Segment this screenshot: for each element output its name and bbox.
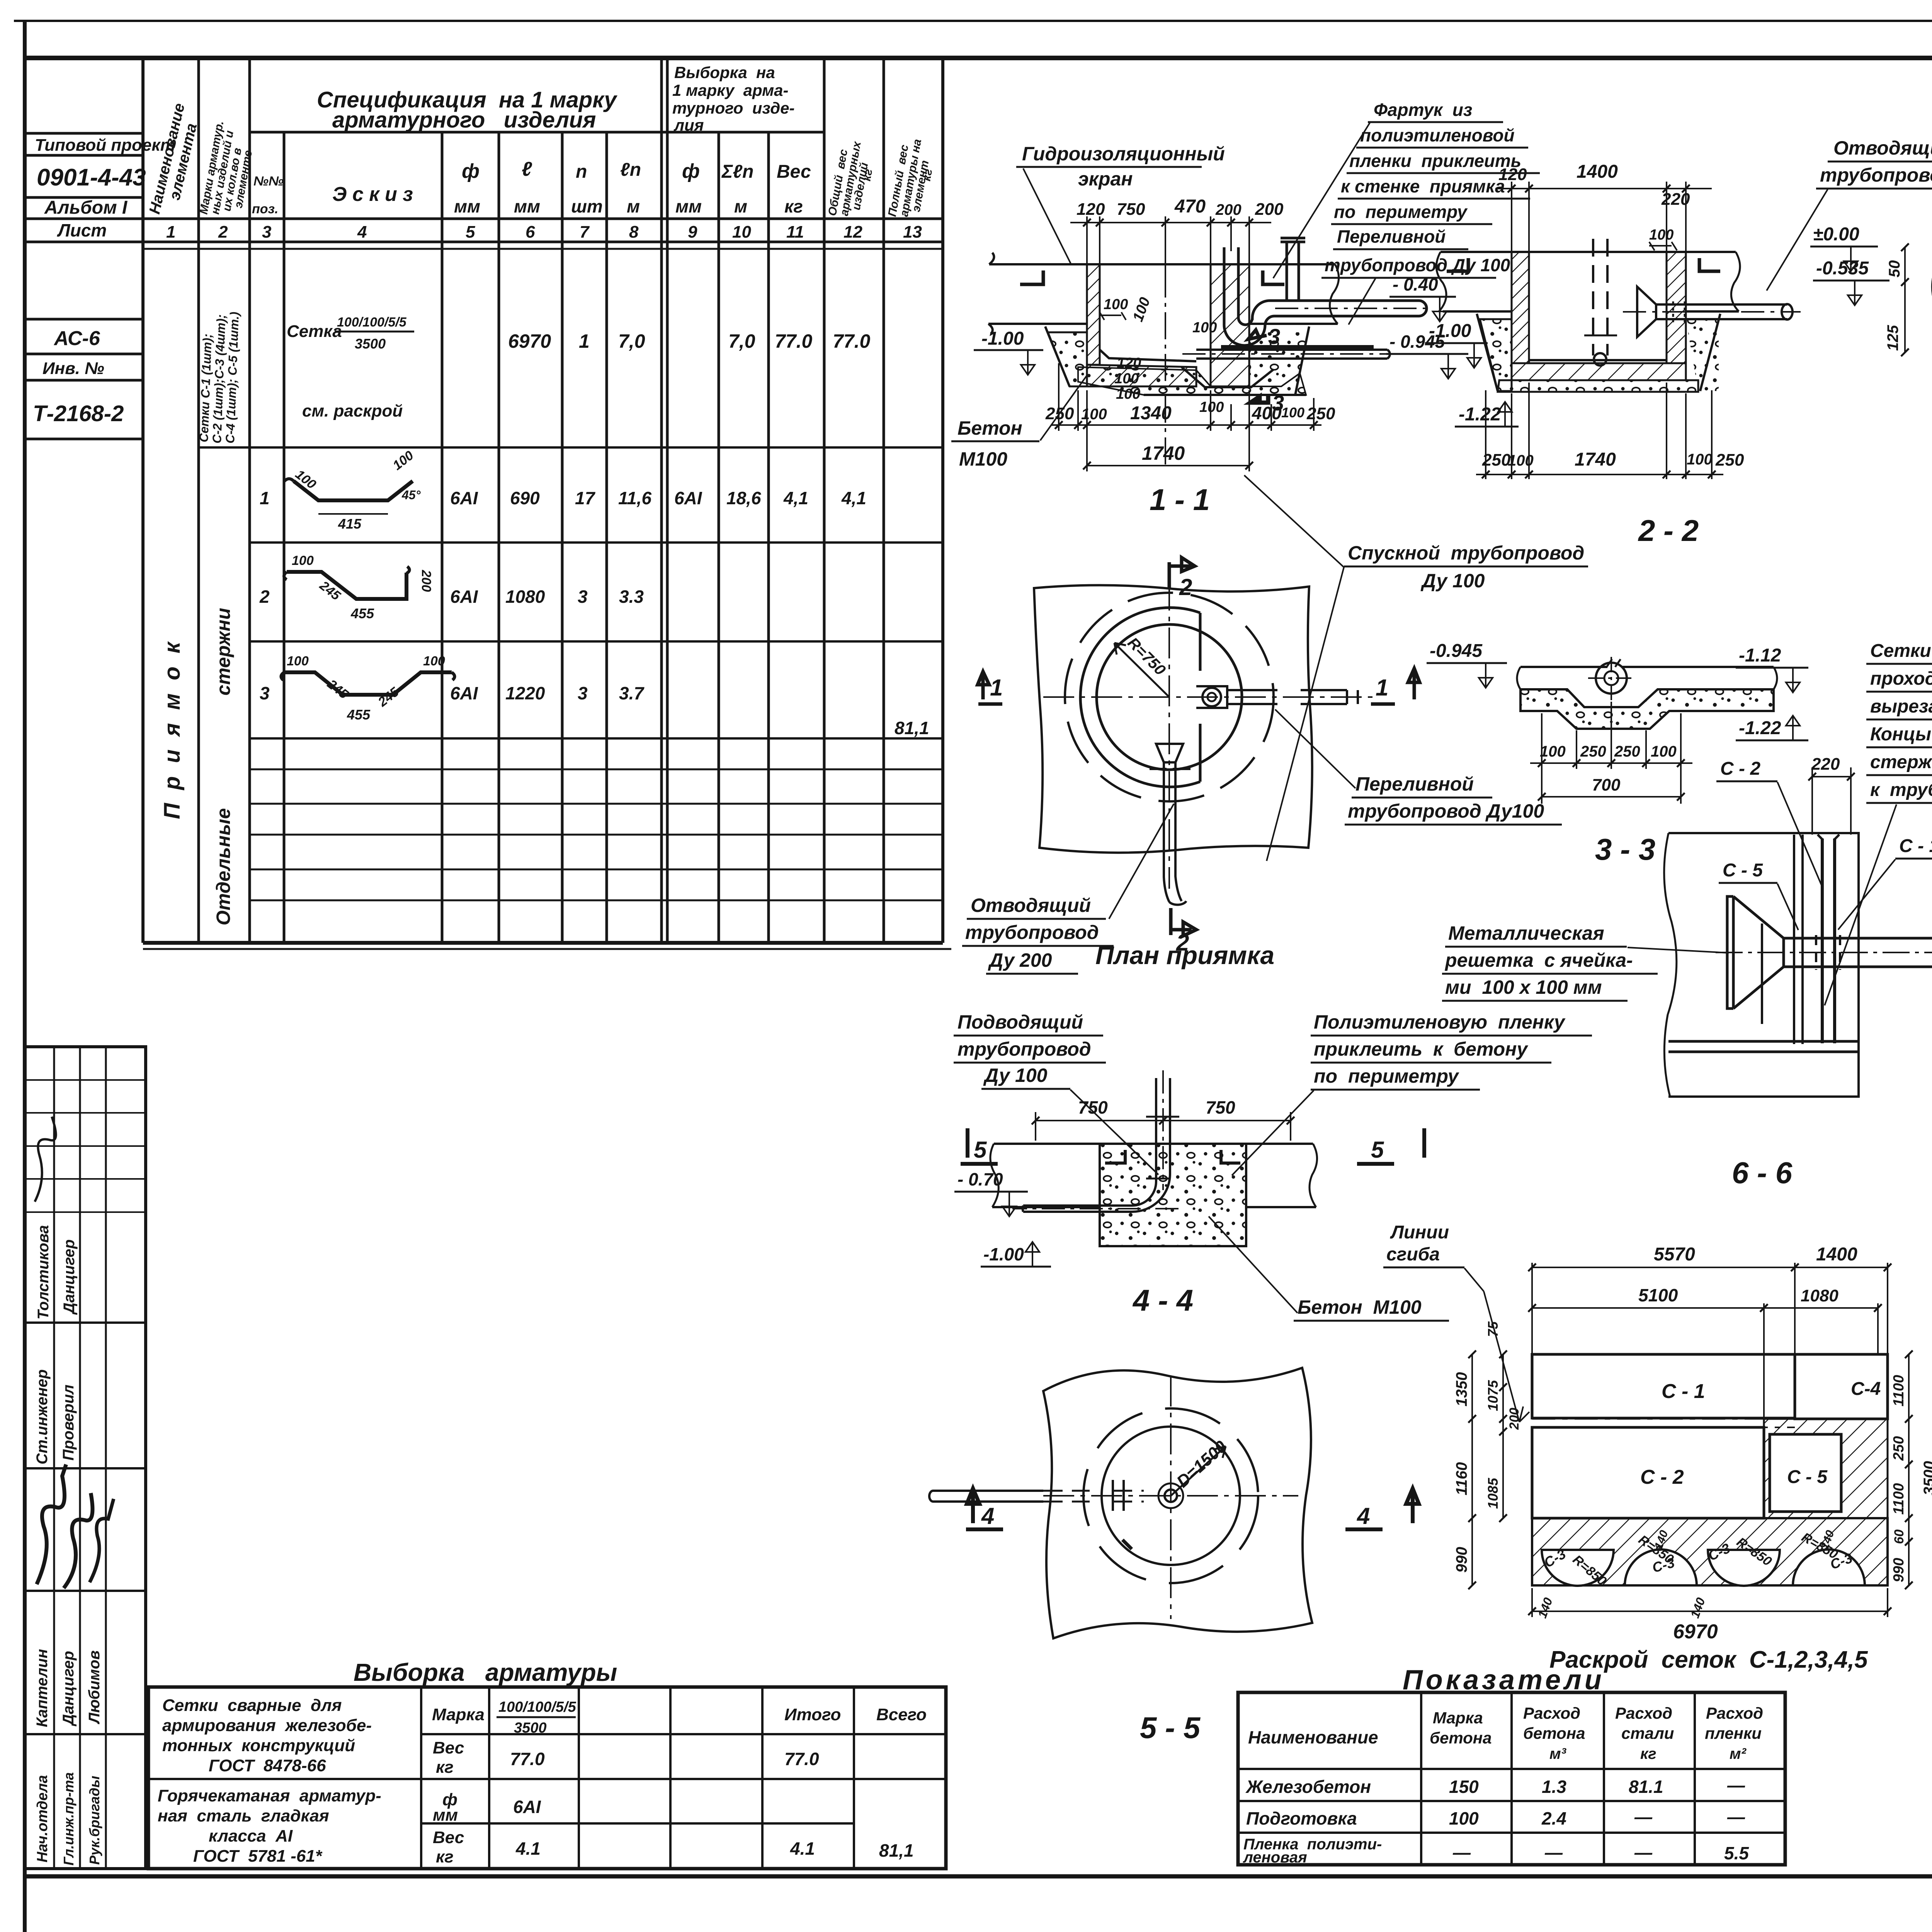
svg-text:С - 2: С - 2 <box>1720 759 1760 779</box>
standpipe tick <box>1584 335 1617 337</box>
svg-text:-1.22: -1.22 <box>1739 718 1781 738</box>
svg-text:4: 4 <box>1357 1503 1370 1529</box>
svg-text:ная сталь гладкая: ная сталь гладкая <box>158 1806 329 1825</box>
svg-text:трубопровод: трубопровод <box>965 922 1099 943</box>
svg-text:250: 250 <box>1580 743 1606 760</box>
svg-text:Типовой проект: Типовой проект <box>35 136 175 155</box>
svg-text:4.1: 4.1 <box>515 1838 541 1859</box>
box outline <box>1668 833 1859 1097</box>
pipe from left <box>929 1491 1043 1502</box>
svg-text:6970: 6970 <box>508 330 551 352</box>
dim 6970 bottom <box>1532 1611 1888 1612</box>
svg-text:трубопровод: трубопровод <box>1820 164 1932 186</box>
svg-text:пленки приклеить: пленки приклеить <box>1349 151 1521 171</box>
svg-text:1 марку арма-: 1 марку арма- <box>672 81 788 99</box>
row lines <box>421 1733 946 1735</box>
svg-text:Расход: Расход <box>1615 1704 1672 1722</box>
svg-text:1: 1 <box>166 223 175 241</box>
svg-text:100: 100 <box>1114 371 1139 387</box>
svg-text:2.4: 2.4 <box>1541 1808 1566 1828</box>
svg-text:250: 250 <box>1482 451 1511 469</box>
stamp cell line <box>25 241 143 243</box>
leader переливной <box>1349 278 1376 325</box>
floor slab 120 band <box>1087 365 1196 386</box>
svg-text:5.5: 5.5 <box>1724 1843 1749 1863</box>
solid circle <box>1102 1427 1240 1565</box>
svg-text:100: 100 <box>1192 320 1217 336</box>
svg-text:81.1: 81.1 <box>1629 1777 1663 1797</box>
svg-text:- 0.70: - 0.70 <box>957 1169 1003 1189</box>
center crosshair <box>1043 1376 1298 1619</box>
svg-text:Бетон М100: Бетон М100 <box>1298 1296 1422 1318</box>
svg-text:5: 5 <box>1371 1137 1384 1163</box>
pipe centerline horizontal <box>1043 696 1376 698</box>
svg-text:2: 2 <box>1179 574 1192 600</box>
standpipe bottom circle <box>1594 353 1606 366</box>
pipe right segment 2 <box>1347 690 1358 704</box>
svg-text:400: 400 <box>1252 403 1282 423</box>
svg-text:-1.22: -1.22 <box>1459 404 1501 425</box>
svg-text:Фартук из: Фартук из <box>1374 100 1472 120</box>
svg-text:60: 60 <box>1892 1529 1906 1544</box>
svg-text:10: 10 <box>732 223 751 241</box>
dim 220 above <box>1812 776 1851 777</box>
bottom dim line <box>1476 474 1723 475</box>
svg-text:Ду 200: Ду 200 <box>988 949 1052 971</box>
svg-text:125: 125 <box>1884 325 1901 351</box>
top dim extensions <box>1511 182 1512 255</box>
svg-text:Всего: Всего <box>876 1705 927 1724</box>
overflow pipe centerline <box>1275 308 1426 309</box>
svg-text:81,1: 81,1 <box>895 718 929 738</box>
svg-text:120: 120 <box>1117 355 1141 371</box>
floor slab band hatched <box>1512 363 1686 380</box>
svg-text:кг: кг <box>436 1847 454 1866</box>
svg-text:Нач.отдела: Нач.отдела <box>34 1775 51 1862</box>
svg-text:Переливной: Переливной <box>1355 773 1474 795</box>
pipe weld ticks <box>1146 1117 1179 1179</box>
svg-text:12: 12 <box>844 223 862 241</box>
svg-text:3: 3 <box>578 587 588 607</box>
svg-text:ГОСТ 8478-66: ГОСТ 8478-66 <box>209 1756 326 1775</box>
col line 9 double b <box>666 58 669 943</box>
svg-text:1220: 1220 <box>505 683 545 703</box>
dim 5570 top <box>1532 1267 1888 1268</box>
svg-text:С - 2: С - 2 <box>1640 1466 1684 1488</box>
pipe circle inner <box>1604 671 1618 685</box>
section mark 2 bottom <box>1171 908 1196 936</box>
section mark 2 top <box>1169 558 1195 588</box>
left dims rotated <box>1471 1354 1473 1585</box>
svg-text:Толстикова: Толстикова <box>35 1225 52 1320</box>
svg-text:77.0: 77.0 <box>775 330 813 352</box>
svg-text:1075: 1075 <box>1485 1380 1501 1411</box>
deep pocket chamfer <box>1182 367 1274 387</box>
row3 bottom line <box>250 737 943 740</box>
pipe sleeve box at wall <box>1196 686 1227 708</box>
svg-text:1080: 1080 <box>505 587 545 607</box>
svg-text:—: — <box>1727 1807 1745 1827</box>
row lines <box>1238 1768 1785 1770</box>
svg-text:77.0: 77.0 <box>510 1749 545 1769</box>
circle centerlines <box>1588 657 1634 700</box>
svg-text:Сетка: Сетка <box>287 322 342 341</box>
fold line dash-dot in C-1 <box>1532 1419 1795 1427</box>
svg-text:Марка: Марка <box>432 1705 485 1724</box>
left berm stippled <box>1048 332 1087 386</box>
pipe circle outer <box>1596 663 1627 694</box>
lower stipple band with trough <box>1520 689 1774 729</box>
svg-text:к стенке приямка: к стенке приямка <box>1341 176 1505 196</box>
left wall hatched <box>1512 252 1529 363</box>
dim extension verticals top <box>1086 216 1088 267</box>
svg-text:м: м <box>734 196 747 216</box>
drain pipe at floor <box>1196 350 1390 359</box>
right dims rotated <box>1908 1354 1910 1585</box>
dim 700 <box>1542 796 1681 798</box>
svg-text:50: 50 <box>1886 260 1903 278</box>
svg-text:4,1: 4,1 <box>841 488 866 508</box>
svg-text:5: 5 <box>466 223 475 241</box>
svg-text:Расход: Расход <box>1706 1704 1763 1722</box>
svg-text:Выборка арматуры: Выборка арматуры <box>354 1658 617 1686</box>
wall inner circle <box>1097 624 1242 770</box>
svg-text:1740: 1740 <box>1575 449 1616 470</box>
section-3 arrow upper <box>1248 330 1267 339</box>
C-4 rectangle <box>1795 1354 1888 1419</box>
top dim ticks <box>1083 219 1253 226</box>
wavy square boundary <box>1034 585 1312 852</box>
leader to 6-6 mesh <box>1825 804 1896 1005</box>
grid row line <box>25 1467 146 1469</box>
svg-text:120: 120 <box>1077 200 1105 219</box>
svg-text:к трубе: к трубе <box>1870 780 1932 800</box>
stamp cell line <box>25 196 143 199</box>
slab bottom edge right <box>1249 323 1338 325</box>
svg-text:ф: ф <box>682 160 700 182</box>
left slope <box>1477 314 1498 391</box>
svg-text:Проверил: Проверил <box>60 1384 77 1461</box>
main frame top thick line <box>25 56 1932 60</box>
slab top line <box>1520 666 1774 668</box>
svg-text:по периметру: по периметру <box>1334 202 1468 222</box>
svg-text:приклеить к бетону: приклеить к бетону <box>1314 1038 1528 1060</box>
slab break zigzag <box>1607 659 1621 667</box>
slab top edge <box>989 253 1335 264</box>
wall opening chord <box>1199 613 1202 782</box>
dim 1740 line <box>1087 465 1249 466</box>
svg-text:120: 120 <box>1498 165 1527 184</box>
wavy ends <box>1517 667 1777 689</box>
svg-text:100: 100 <box>1104 296 1128 313</box>
svg-text:1: 1 <box>1376 675 1388 701</box>
svg-text:по периметру: по периметру <box>1314 1065 1459 1087</box>
svg-text:Металлическая: Металлическая <box>1448 922 1604 944</box>
svg-text:6АI: 6АI <box>450 488 478 508</box>
hatched zone around C-5 <box>1764 1419 1888 1518</box>
left outer slope line <box>1045 327 1070 386</box>
svg-text:4 - 4: 4 - 4 <box>1132 1283 1193 1317</box>
right pit wall hatched <box>1211 264 1249 386</box>
svg-text:Гл.инж.пр-та: Гл.инж.пр-та <box>61 1772 77 1866</box>
empty row line <box>250 869 943 871</box>
row1 bottom line <box>250 541 943 544</box>
col line 6 <box>498 132 500 943</box>
svg-text:—: — <box>1634 1807 1653 1827</box>
svg-text:100: 100 <box>1449 1808 1479 1828</box>
col line 3 <box>248 58 251 943</box>
mesh top hooks <box>1818 835 1839 839</box>
dim extension verticals <box>1531 1263 1533 1354</box>
svg-text:1.3: 1.3 <box>1542 1777 1566 1797</box>
table outline <box>148 1687 946 1869</box>
svg-text:м²: м² <box>1730 1745 1747 1762</box>
header split line under titles <box>250 131 824 134</box>
big row bottom line <box>199 446 943 449</box>
inner mesh vertical pair 2 thick <box>1822 838 1835 1043</box>
svg-text:Отводящий: Отводящий <box>1833 137 1932 159</box>
svg-text:4,1: 4,1 <box>783 488 808 508</box>
funnel down <box>1156 744 1183 762</box>
col lines <box>1420 1692 1422 1865</box>
slab right wavy break <box>1330 264 1338 324</box>
svg-text:7,0: 7,0 <box>728 330 755 352</box>
dim 5100 <box>1532 1307 1878 1309</box>
svg-text:750: 750 <box>1206 1097 1235 1117</box>
svg-text:0901-4-43: 0901-4-43 <box>37 164 146 191</box>
embed angle mark right pit <box>1263 270 1284 284</box>
slab top line <box>994 1143 1313 1145</box>
svg-text:кг: кг <box>784 196 803 216</box>
section 5 mark left <box>961 1128 998 1164</box>
svg-text:ℓ: ℓ <box>522 158 532 180</box>
centerline dashdot <box>1165 270 1166 466</box>
grid vertical 2 <box>79 1047 81 1869</box>
slab bottom right <box>1685 310 1739 313</box>
svg-text:пленки: пленки <box>1705 1724 1762 1742</box>
top dim ticks <box>1508 185 1690 192</box>
pipe weld tick <box>1113 1480 1124 1511</box>
bottom dim line <box>1051 424 1321 426</box>
pipe centerline <box>1716 952 1932 953</box>
svg-text:Каптелин: Каптелин <box>34 1649 51 1727</box>
svg-text:3 - 3: 3 - 3 <box>1595 832 1655 866</box>
svg-text:Данцигер: Данцигер <box>60 1651 77 1726</box>
grid vertical 1 <box>53 1047 55 1869</box>
right slope <box>1700 314 1720 391</box>
svg-text:100: 100 <box>423 654 445 668</box>
svg-text:6АI: 6АI <box>513 1797 541 1817</box>
svg-text:Концы обрезанных: Концы обрезанных <box>1870 724 1932 745</box>
svg-text:С-4: С-4 <box>1851 1379 1881 1399</box>
svg-text:100: 100 <box>1281 405 1304 420</box>
inner mesh vertical pair 1 <box>1794 835 1803 1044</box>
svg-text:100: 100 <box>1199 399 1224 415</box>
svg-text:-1.12: -1.12 <box>1739 645 1781 666</box>
col line 1 <box>141 242 145 943</box>
section 4 mark right <box>1345 1488 1419 1529</box>
drain sleeve thick <box>1221 345 1374 349</box>
svg-text:150: 150 <box>1449 1777 1479 1797</box>
pit floor line <box>1100 350 1196 361</box>
pocket bottom line <box>1144 394 1306 396</box>
signature squiggle top <box>35 1117 56 1202</box>
svg-text:стержней приварить: стержней приварить <box>1870 752 1932 772</box>
svg-text:990: 990 <box>1891 1558 1907 1582</box>
svg-text:Наименование: Наименование <box>1248 1727 1378 1747</box>
row1 sketch bent bar <box>294 481 413 500</box>
svg-text:6970: 6970 <box>1673 1621 1718 1643</box>
svg-text:1340: 1340 <box>1130 403 1172 423</box>
svg-text:415: 415 <box>338 516 362 532</box>
svg-text:100: 100 <box>1116 386 1140 402</box>
table bottom thick line <box>143 941 943 945</box>
col line 7 <box>561 132 564 943</box>
left berm stipple <box>1480 319 1512 391</box>
svg-text:Линии: Линии <box>1390 1222 1449 1243</box>
svg-text:6 - 6: 6 - 6 <box>1732 1156 1793 1190</box>
svg-text:220: 220 <box>1661 190 1690 209</box>
svg-text:Сетки в месте: Сетки в месте <box>1870 641 1932 661</box>
D=1500 radius <box>1171 1446 1226 1496</box>
svg-text:100: 100 <box>1081 406 1107 423</box>
svg-text:ГОСТ 5781 -61*: ГОСТ 5781 -61* <box>193 1847 323 1866</box>
col line 12 <box>823 58 826 943</box>
C-3 semicircle 3 <box>1708 1550 1780 1586</box>
leader отводящий план <box>1109 804 1174 919</box>
svg-text:-0.535: -0.535 <box>1816 258 1869 279</box>
wavy blob <box>1043 1368 1312 1638</box>
slab bottom line <box>1520 688 1774 690</box>
svg-text:3: 3 <box>262 223 271 241</box>
overflow horizontal pipe <box>1270 301 1427 316</box>
svg-text:77.0: 77.0 <box>833 330 871 352</box>
svg-text:750: 750 <box>1117 200 1145 219</box>
svg-text:трубопровод Ду 100: трубопровод Ду 100 <box>1325 255 1510 275</box>
svg-text:1400: 1400 <box>1577 162 1618 182</box>
svg-text:Гидроизоляционный: Гидроизоляционный <box>1022 143 1225 165</box>
svg-text:5: 5 <box>974 1137 987 1163</box>
svg-text:м: м <box>627 196 640 216</box>
section mark 1 right <box>1371 668 1420 704</box>
leader решетка <box>1628 947 1729 953</box>
C-5 white box <box>1770 1434 1841 1512</box>
leader бетон <box>1040 375 1087 440</box>
svg-text:700: 700 <box>1592 776 1621 794</box>
svg-text:3: 3 <box>578 683 588 703</box>
svg-text:Приямок: Приямок <box>160 629 185 819</box>
svg-text:кг: кг <box>860 168 875 182</box>
table right edge <box>941 58 944 943</box>
grid row line <box>25 1733 146 1735</box>
svg-text:мм: мм <box>675 196 702 216</box>
svg-text:2: 2 <box>259 587 270 607</box>
svg-text:сгиба: сгиба <box>1386 1244 1440 1265</box>
pipe centerlines <box>1012 1070 1179 1209</box>
funnel at right wall <box>1637 287 1656 337</box>
grid row line <box>25 1079 146 1081</box>
col line 9 double a <box>660 58 663 943</box>
dims 750 750 <box>1036 1120 1291 1121</box>
paper trim border top <box>14 20 1932 22</box>
svg-text:1350: 1350 <box>1453 1372 1470 1406</box>
embed angle right in block <box>1221 1150 1240 1163</box>
leader гидроизоляционный <box>1023 168 1071 264</box>
section-3 arrow lower <box>1250 394 1268 403</box>
left wavy edge <box>1664 833 1677 1097</box>
svg-text:стержни: стержни <box>213 608 234 696</box>
svg-text:4: 4 <box>357 223 367 241</box>
svg-text:1100: 1100 <box>1891 1483 1907 1515</box>
right berm stipple <box>1686 319 1719 391</box>
leader фартук <box>1273 123 1370 278</box>
leader спускной <box>1244 475 1344 861</box>
numbers row double line <box>143 248 943 250</box>
empty row line <box>250 803 943 805</box>
svg-text:1: 1 <box>990 675 1003 701</box>
bottom hatched strip <box>1532 1518 1888 1585</box>
stamp cell line (top of Типовой проект) <box>25 132 143 135</box>
svg-text:—: — <box>1727 1775 1745 1795</box>
svg-text:см. раскрой: см. раскрой <box>302 401 403 420</box>
svg-text:С - 1: С - 1 <box>1899 836 1932 856</box>
embed angle left <box>1447 258 1468 271</box>
pipe from funnel <box>1784 938 1932 967</box>
svg-text:1: 1 <box>260 488 270 508</box>
svg-text:470: 470 <box>1174 196 1206 217</box>
svg-text:С - 5: С - 5 <box>1723 860 1763 881</box>
svg-text:100: 100 <box>1651 743 1677 760</box>
svg-text:арматурного изделия: арматурного изделия <box>332 107 596 133</box>
svg-text:Подготовка: Подготовка <box>1246 1808 1357 1828</box>
svg-text:8: 8 <box>629 223 639 241</box>
svg-text:С - 1: С - 1 <box>1662 1380 1705 1403</box>
stamp column right edge <box>141 58 145 242</box>
vertical centerline <box>1168 580 1170 889</box>
bottom dim extension lines <box>1058 363 1060 431</box>
svg-text:—: — <box>1544 1842 1563 1862</box>
svg-text:100: 100 <box>1687 451 1713 468</box>
left wavy <box>990 1144 998 1207</box>
svg-text:Бетон: Бетон <box>957 417 1022 439</box>
svg-text:3: 3 <box>260 683 270 703</box>
dashed standpipe <box>1593 239 1607 355</box>
svg-text:Переливной: Переливной <box>1337 226 1446 247</box>
right berm slope <box>1295 327 1309 395</box>
svg-text:прохода трубы: прохода трубы <box>1870 668 1932 689</box>
svg-text:6: 6 <box>526 223 535 241</box>
svg-text:Данцигер: Данцигер <box>61 1239 78 1315</box>
svg-text:Т-2168-2: Т-2168-2 <box>33 401 124 426</box>
right wavy break <box>1731 252 1740 311</box>
svg-text:Вес: Вес <box>433 1738 464 1757</box>
svg-text:кг: кг <box>920 168 935 182</box>
bottom dim ticks <box>1482 471 1716 478</box>
svg-text:220: 220 <box>1811 755 1840 774</box>
svg-text:81,1: 81,1 <box>879 1840 914 1861</box>
svg-text:Железобетон: Железобетон <box>1245 1777 1371 1797</box>
pipe to the right <box>1227 690 1347 704</box>
radius tick lower left <box>1122 1540 1132 1549</box>
svg-text:-1.00: -1.00 <box>981 328 1024 349</box>
svg-text:1740: 1740 <box>1142 442 1185 464</box>
svg-text:АС-6: АС-6 <box>53 327 100 350</box>
bottom dim ticks <box>1055 421 1318 429</box>
C-3 semicircle 4 <box>1793 1549 1865 1585</box>
svg-text:Полиэтиленовую пленку: Полиэтиленовую пленку <box>1314 1011 1566 1033</box>
svg-text:3: 3 <box>1268 324 1280 349</box>
funnel pipe lower end <box>1169 901 1186 905</box>
